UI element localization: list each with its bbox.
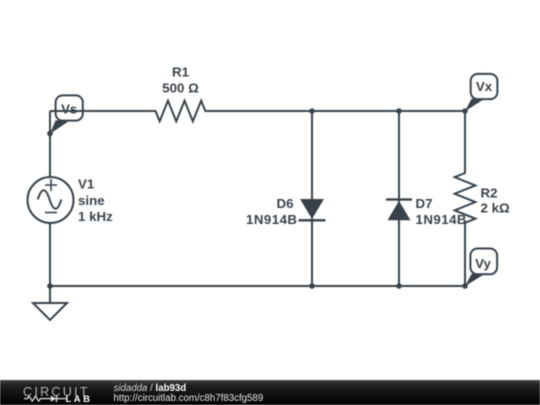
- svg-text:1N914B: 1N914B: [416, 212, 468, 227]
- svg-text:Vy: Vy: [475, 256, 491, 271]
- svg-text:1N914B: 1N914B: [246, 212, 298, 227]
- svg-text:Vx: Vx: [476, 79, 493, 94]
- svg-text:2 kΩ: 2 kΩ: [481, 201, 510, 216]
- svg-text:500 Ω: 500 Ω: [162, 81, 199, 96]
- svg-text:D6: D6: [277, 196, 294, 211]
- svg-text:D7: D7: [416, 196, 433, 211]
- svg-text:Vs: Vs: [61, 101, 77, 116]
- svg-text:R2: R2: [481, 185, 498, 200]
- svg-text:R1: R1: [172, 65, 190, 80]
- svg-text:V1: V1: [78, 177, 95, 192]
- svg-text:sine: sine: [78, 193, 105, 208]
- svg-text:LAB: LAB: [66, 394, 93, 405]
- svg-text:1 kHz: 1 kHz: [78, 209, 113, 224]
